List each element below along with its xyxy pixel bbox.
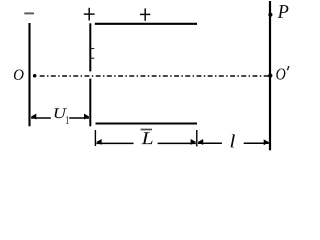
U1 right arrowhead <box>84 114 89 120</box>
label L with overbar <box>141 132 152 144</box>
label U1 <box>55 108 67 118</box>
label P <box>278 5 289 18</box>
plus label over top plate <box>140 8 150 20</box>
screen <box>269 1 271 150</box>
minus polarity label <box>24 12 34 14</box>
U1 dimension line right segment <box>69 117 89 119</box>
L dimension line right segment <box>158 142 196 144</box>
L dimension right tick <box>196 130 198 146</box>
anode tick lower <box>91 57 94 59</box>
U1 left arrowhead <box>31 114 36 120</box>
l dimension line right segment <box>244 142 269 144</box>
L dimension left tick <box>94 130 96 146</box>
node O' dot on screen <box>268 74 272 78</box>
cathode plate K <box>28 23 30 126</box>
L dimension line left segment <box>96 142 133 144</box>
anode electrode lower segment <box>89 79 91 127</box>
L dimension right arrowhead <box>191 139 196 145</box>
l dimension left arrowhead <box>198 139 203 145</box>
axis start dot <box>33 74 37 78</box>
anode tick upper <box>91 48 94 50</box>
U1 dimension line left segment <box>31 117 51 119</box>
overbar of L <box>141 129 152 131</box>
plus label over anode <box>84 8 95 21</box>
L dimension left arrowhead <box>96 139 101 145</box>
prime of O' <box>287 66 289 70</box>
label l <box>231 134 235 147</box>
bottom deflection plate <box>96 122 198 124</box>
point P dot on screen <box>268 13 272 17</box>
optical axis dash-dot <box>40 75 269 77</box>
top deflection plate <box>95 23 197 25</box>
l dimension line left segment <box>198 142 222 144</box>
l dimension right arrowhead <box>264 139 269 145</box>
anode electrode upper segment <box>89 23 91 71</box>
label O' <box>276 69 285 80</box>
label O <box>14 70 24 80</box>
